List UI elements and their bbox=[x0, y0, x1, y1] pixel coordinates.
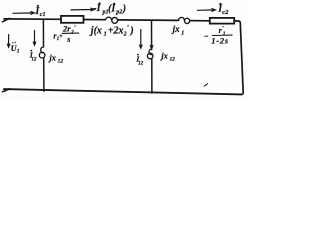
svg-text:′: ′ bbox=[127, 23, 129, 32]
wire right vertical bbox=[240, 23, 243, 94]
wire left magnetizing branch upper bbox=[42, 19, 44, 47]
wire from resistor R2 to top-right corner bbox=[234, 21, 240, 23]
wire from coil L1 through node to coil L2 bbox=[118, 19, 179, 22]
wire from resistor to coil L1 bbox=[84, 19, 106, 21]
wire middle magnetizing branch upper bbox=[151, 20, 153, 49]
svg-text:12: 12 bbox=[170, 57, 176, 63]
terminal tick top-left bbox=[3, 18, 10, 22]
inductor L1 j(x1+2x2') loop symbol bbox=[106, 17, 112, 20]
svg-text:c1: c1 bbox=[40, 12, 46, 18]
resistor R box r1+2r2'/s bbox=[61, 16, 84, 23]
svg-text:-I: -I bbox=[93, 3, 101, 14]
svg-text:′: ′ bbox=[74, 26, 76, 32]
resistor R2 box r1'/(1-2s) bbox=[210, 18, 234, 24]
inductor jx12 middle loop symbol bbox=[149, 49, 152, 54]
arrow current -Ip1 bbox=[71, 9, 94, 11]
svg-text:12: 12 bbox=[58, 59, 64, 65]
svg-text:1-2s: 1-2s bbox=[211, 36, 228, 46]
arrowhead current on middle branch wire bbox=[150, 45, 153, 49]
arrow voltage U1 down bbox=[8, 35, 10, 47]
wire bottom from right corner to left terminal bbox=[4, 89, 242, 94]
svg-text:1: 1 bbox=[104, 32, 107, 38]
svg-text:jx: jx bbox=[47, 52, 56, 62]
svg-text:(I: (I bbox=[108, 3, 116, 14]
wire top segment from left terminal to resistor bbox=[4, 18, 61, 20]
label value r1'/(1-2s) bbox=[204, 35, 208, 37]
arrow current I12 middle branch down bbox=[140, 30, 142, 48]
svg-text:1: 1 bbox=[181, 30, 184, 36]
wire left magnetizing branch lower bbox=[43, 58, 45, 91]
svg-text:c2: c2 bbox=[222, 9, 229, 16]
terminal tick bottom-left bbox=[3, 89, 11, 92]
svg-text:12: 12 bbox=[31, 57, 37, 62]
svg-text:): ) bbox=[129, 25, 133, 36]
svg-text:j(x: j(x bbox=[89, 26, 102, 37]
svg-text:s: s bbox=[66, 35, 70, 44]
svg-text:jx: jx bbox=[159, 50, 168, 60]
arrow current Ic2 bbox=[198, 9, 215, 11]
wire middle magnetizing branch lower bbox=[151, 59, 153, 93]
svg-text:p2: p2 bbox=[115, 10, 122, 16]
svg-text:2: 2 bbox=[123, 31, 127, 37]
svg-text:12: 12 bbox=[138, 61, 144, 66]
svg-text:jx: jx bbox=[171, 24, 181, 34]
arrow current Ic1 bbox=[13, 12, 34, 14]
inductor jx12 left loop symbol bbox=[41, 47, 44, 53]
svg-text:): ) bbox=[122, 3, 126, 14]
svg-text:+2x: +2x bbox=[108, 25, 124, 36]
artifact slash near bottom bbox=[204, 84, 207, 87]
wire from coil L2 to resistor R2 bbox=[190, 20, 210, 22]
svg-text:2r: 2r bbox=[62, 24, 71, 34]
arrow current I12 left branch down bbox=[34, 31, 36, 45]
inductor L2 jx1 loop symbol bbox=[179, 17, 185, 20]
svg-text:1: 1 bbox=[17, 49, 20, 55]
